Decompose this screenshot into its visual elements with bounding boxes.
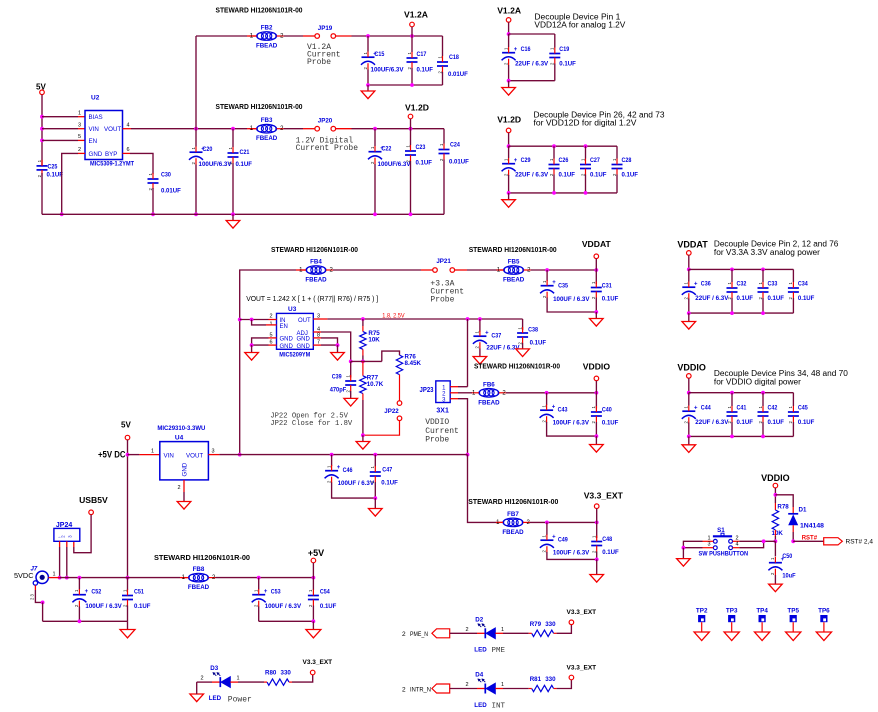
wire C47 upper lead xyxy=(374,455,376,467)
ground TP4 xyxy=(754,632,769,641)
wire JP20 pin1 stub xyxy=(303,128,315,130)
svg-text:VDDIO: VDDIO xyxy=(761,473,790,483)
wire U4 VIN xyxy=(128,454,140,456)
svg-text:FBEAD: FBEAD xyxy=(256,135,278,142)
switch S1 SW PUSHBUTTON xyxy=(699,527,749,558)
net flag V1.2D xyxy=(405,103,429,119)
wire C19 upper lead xyxy=(554,34,556,48)
ground xyxy=(190,694,204,702)
wire U3 GND7 right xyxy=(321,344,338,346)
ground xyxy=(331,353,345,361)
wire EN feed xyxy=(252,320,266,325)
svg-text:C35: C35 xyxy=(558,283,568,290)
wire JP22 return xyxy=(363,420,400,435)
label RST# net xyxy=(802,535,818,541)
svg-text:V3.3_EXT: V3.3_EXT xyxy=(584,490,624,500)
svg-text:R78: R78 xyxy=(777,504,789,511)
wire ADJ to junction xyxy=(321,332,351,361)
capacitor C47 xyxy=(370,466,398,487)
svg-text:D2: D2 xyxy=(475,616,483,623)
svg-text:+: + xyxy=(514,158,518,164)
net flag V1.2A bank xyxy=(497,6,521,23)
ground TP2 xyxy=(694,632,709,641)
wire VDDIO to R78 xyxy=(774,488,776,503)
capacitor C16 xyxy=(502,46,549,68)
svg-text:SW PUSHBUTTON: SW PUSHBUTTON xyxy=(699,550,749,557)
wire 1.8/2.5V rail xyxy=(327,318,522,320)
wire C17 lower lead xyxy=(411,68,413,85)
capacitor C37 xyxy=(473,330,520,351)
svg-text:0.1UF: 0.1UF xyxy=(417,67,434,74)
svg-text:0.1UF: 0.1UF xyxy=(381,480,398,487)
svg-text:C24: C24 xyxy=(450,142,460,149)
svg-text:INTR_N: INTR_N xyxy=(410,686,431,693)
wire 3.3V main rail xyxy=(219,454,467,456)
wire JP21 pin2 stub xyxy=(454,269,467,271)
wire U2 VIN pin stub xyxy=(78,128,85,130)
pin 1 D3 xyxy=(237,676,240,682)
ground TP3 xyxy=(724,632,739,641)
svg-text:1: 1 xyxy=(501,627,504,633)
svg-text:22UF / 6.3V: 22UF / 6.3V xyxy=(515,172,549,179)
wire JP21 to FB5 xyxy=(467,269,499,271)
svg-text:STEWARD HI1206N101R-00: STEWARD HI1206N101R-00 xyxy=(468,497,558,506)
svg-text:C38: C38 xyxy=(528,327,538,334)
pin 2 D2 xyxy=(466,627,469,633)
capacitor C33 xyxy=(758,281,785,303)
capacitor C39 xyxy=(330,374,357,394)
svg-text:C46: C46 xyxy=(343,467,353,474)
capacitor C43 xyxy=(540,404,590,426)
svg-text:+: + xyxy=(694,281,698,287)
junction xyxy=(687,435,691,439)
svg-text:+: + xyxy=(337,465,341,471)
label 1.2V Digital Current Probe xyxy=(296,137,359,154)
wire C42 lower lead xyxy=(762,422,764,436)
net flag V3.3_EXT xyxy=(584,490,624,508)
wire gnd to D3 xyxy=(197,681,212,683)
capacitor C23 xyxy=(405,144,432,167)
svg-text:C43: C43 xyxy=(558,407,568,414)
junction xyxy=(594,268,598,272)
svg-text:Probe: Probe xyxy=(425,436,449,445)
svg-text:1: 1 xyxy=(53,572,56,578)
junction xyxy=(791,539,795,543)
connector J7 5VDC jack xyxy=(14,567,48,586)
wire FB5 pin1 stub xyxy=(499,269,505,271)
svg-text:0.1UF: 0.1UF xyxy=(798,419,815,426)
wire C26 lower lead xyxy=(553,175,555,193)
svg-text:STEWARD HI1206N101R-00: STEWARD HI1206N101R-00 xyxy=(216,102,303,111)
svg-text:C34: C34 xyxy=(798,281,808,288)
capacitor C38 xyxy=(517,327,546,347)
svg-text:D4: D4 xyxy=(475,672,483,679)
svg-text:100UF / 6.3V: 100UF / 6.3V xyxy=(85,603,122,610)
svg-text:GND: GND xyxy=(280,337,294,343)
svg-text:+: + xyxy=(264,589,268,595)
pin 3 U3 xyxy=(317,314,320,320)
junction xyxy=(330,453,334,457)
wire U3 GND5 left xyxy=(252,338,269,345)
wire FB6 to VDDIO xyxy=(506,392,597,394)
svg-text:0.1UF: 0.1UF xyxy=(768,295,785,302)
label STEWARD FB5 xyxy=(469,245,557,254)
svg-text:10.7K: 10.7K xyxy=(367,381,384,388)
wire C28 lower lead xyxy=(616,175,618,193)
label STEWARD FB7 xyxy=(468,497,558,506)
junction xyxy=(373,453,377,457)
ground xyxy=(516,349,530,357)
junction xyxy=(761,268,765,272)
wire C46 upper lead xyxy=(331,455,333,466)
pin 4 U2 xyxy=(127,123,130,129)
wire bank3 top rail xyxy=(689,268,794,270)
svg-text:1: 1 xyxy=(707,535,710,541)
wire C32 upper lead xyxy=(731,269,733,282)
svg-text:BIAS: BIAS xyxy=(89,114,103,121)
wire R77 upper red xyxy=(362,361,364,375)
svg-text:4: 4 xyxy=(127,123,130,129)
svg-text:C39: C39 xyxy=(332,374,342,381)
wire C35 lower lead xyxy=(547,298,596,313)
svg-text:VDDAT: VDDAT xyxy=(582,239,612,249)
wire C35 upper lead xyxy=(546,270,548,281)
svg-text:2: 2 xyxy=(402,631,406,638)
svg-text:100UF / 6.3V: 100UF / 6.3V xyxy=(265,603,302,610)
pin 3 U4 xyxy=(212,449,215,455)
wire 5V input rail xyxy=(60,577,180,579)
pin 2 U2 xyxy=(78,147,81,153)
ground xyxy=(682,313,696,329)
wire U2 VOUT pin stub xyxy=(123,128,132,130)
wire C20 upper lead xyxy=(195,129,197,147)
wire C43 lower lead xyxy=(547,422,597,436)
svg-text:1: 1 xyxy=(237,676,240,682)
capacitor C17 xyxy=(407,51,434,74)
svg-text:+: + xyxy=(552,534,556,540)
svg-text:VDDAT: VDDAT xyxy=(677,239,708,249)
svg-text:2: 2 xyxy=(201,676,204,682)
svg-text:Power: Power xyxy=(228,696,252,705)
capacitor C51 xyxy=(122,589,151,611)
wire U2 GND to rail xyxy=(62,153,78,214)
wire JP19 pin2 stub xyxy=(335,35,351,37)
svg-text:C51: C51 xyxy=(134,589,144,596)
svg-text:VIN: VIN xyxy=(89,126,99,133)
junction xyxy=(545,268,549,272)
junction xyxy=(507,79,511,83)
junction xyxy=(312,576,316,580)
svg-text:100UF/6.3V: 100UF/6.3V xyxy=(371,67,405,74)
junction xyxy=(40,115,44,119)
pin 4 S1 xyxy=(736,542,739,548)
wire C31 upper lead xyxy=(595,270,597,284)
test point TP4 xyxy=(756,608,768,632)
svg-text:C53: C53 xyxy=(271,589,281,596)
pin 1 U3 xyxy=(269,322,272,328)
wire J7 shell stub xyxy=(34,585,36,590)
label R78 value xyxy=(772,530,784,537)
svg-text:MIC5209YM: MIC5209YM xyxy=(279,352,310,359)
junction xyxy=(78,619,82,623)
jumper JP22 xyxy=(384,401,402,421)
connector JP24 xyxy=(54,522,80,541)
port PME_N xyxy=(402,629,450,638)
wire C37 lower lead xyxy=(479,349,481,357)
svg-text:C21: C21 xyxy=(240,149,250,156)
svg-text:JP23: JP23 xyxy=(420,387,434,394)
wire C39 upper lead xyxy=(350,361,352,377)
wire C46 lower lead xyxy=(332,483,376,499)
wire C49 lower lead xyxy=(547,552,597,559)
svg-text:FB8: FB8 xyxy=(193,566,205,573)
junction xyxy=(361,433,365,437)
wire C28 upper lead xyxy=(616,146,618,158)
LED D2 xyxy=(475,616,495,638)
svg-text:R79: R79 xyxy=(530,621,542,628)
svg-text:GND: GND xyxy=(182,462,189,476)
wire ground rail xyxy=(42,213,444,215)
wire C41 lower lead xyxy=(731,422,733,436)
wire R76 to JP22 xyxy=(399,375,401,401)
svg-text:EN: EN xyxy=(89,138,98,145)
svg-text:U3: U3 xyxy=(288,306,297,313)
wire C50 lower lead xyxy=(774,575,776,584)
svg-text:LED: LED xyxy=(209,695,222,702)
junction xyxy=(584,191,588,195)
capacitor C32 xyxy=(727,281,754,303)
junction xyxy=(584,144,588,148)
svg-text:Probe: Probe xyxy=(430,295,454,304)
ground xyxy=(306,621,321,638)
wire VDDIO bank drop xyxy=(688,378,690,393)
pin 6 U2 xyxy=(127,147,130,153)
wire JP21 pin1 stub xyxy=(421,269,433,271)
wire C21 lower lead xyxy=(232,163,234,214)
svg-text:C47: C47 xyxy=(382,467,392,474)
capacitor C29 xyxy=(502,157,549,179)
ground xyxy=(369,498,383,516)
port RST# off-page xyxy=(824,538,874,546)
svg-text:+: + xyxy=(552,404,556,410)
ground xyxy=(682,436,696,452)
junction xyxy=(595,521,599,525)
wire row1 ground rail xyxy=(368,84,443,86)
junction xyxy=(730,435,734,439)
svg-text:D1: D1 xyxy=(799,507,807,514)
junction xyxy=(730,311,734,315)
junction xyxy=(478,317,482,321)
wire C23 upper lead xyxy=(410,129,412,145)
capacitor C22 xyxy=(368,146,411,169)
junction xyxy=(40,139,44,143)
svg-text:GND: GND xyxy=(89,151,103,158)
svg-text:Current Probe: Current Probe xyxy=(296,144,359,153)
svg-text:0.1UF: 0.1UF xyxy=(737,295,754,302)
svg-text:C37: C37 xyxy=(491,333,501,340)
wire JP24 pin2 drop xyxy=(66,547,68,578)
wire V1.2D flag xyxy=(410,119,412,129)
wire U3 left gnd drop xyxy=(251,345,253,352)
svg-text:VDD12A for analog 1.2V: VDD12A for analog 1.2V xyxy=(534,21,626,30)
wire C16 upper lead xyxy=(508,34,510,47)
wire C53 upper lead xyxy=(258,578,260,590)
svg-text:C25: C25 xyxy=(48,163,58,170)
net flag VDDIO mid xyxy=(583,362,611,381)
wire +5V flag xyxy=(312,563,314,578)
wire VDDIO flag xyxy=(595,381,597,393)
op-amp U3 MIC5209YM regulator xyxy=(277,306,314,359)
resistor R77 xyxy=(360,374,384,393)
wire C18 lower lead xyxy=(442,72,444,85)
svg-text:PME_N: PME_N xyxy=(410,631,428,638)
wire FB4 pin1 stub xyxy=(296,269,307,271)
junction xyxy=(250,343,254,347)
junction xyxy=(151,212,155,216)
svg-text:5: 5 xyxy=(78,134,81,140)
svg-text:TP2: TP2 xyxy=(696,608,708,615)
pin 6 U3 xyxy=(269,340,272,346)
svg-text:STEWARD HI1206N101R-00: STEWARD HI1206N101R-00 xyxy=(154,553,250,562)
svg-text:LED: LED xyxy=(474,647,487,654)
wire C38 drop xyxy=(522,319,524,330)
ferrite bead FB5 xyxy=(497,259,531,284)
wire RST# to port xyxy=(793,540,824,542)
svg-text:+5V DC: +5V DC xyxy=(98,449,126,459)
wire bank2 top rail xyxy=(509,145,617,147)
wire C38 lower lead xyxy=(522,343,524,349)
wire C37 upper lead xyxy=(479,319,481,332)
wire C42 upper lead xyxy=(762,393,764,406)
pin 2 D3 xyxy=(201,676,204,682)
wire D2 anode stub xyxy=(495,632,503,634)
svg-text:C50: C50 xyxy=(782,553,792,560)
svg-text:0.1UF: 0.1UF xyxy=(768,419,785,426)
wire C27 upper lead xyxy=(585,146,587,158)
svg-text:C54: C54 xyxy=(320,589,330,596)
wire J7 gnd drop xyxy=(42,602,44,621)
test point TP3 xyxy=(726,608,738,632)
svg-text:C16: C16 xyxy=(521,46,531,53)
svg-text:3: 3 xyxy=(212,449,215,455)
wire C45 lower lead xyxy=(792,422,794,436)
wire JP24 pin1 drop xyxy=(59,547,61,578)
svg-text:FB6: FB6 xyxy=(483,381,495,388)
wire bank1 bottom rail xyxy=(509,80,555,82)
svg-text:VOUT = 1.242 X [ 1 + ( (R77||: VOUT = 1.242 X [ 1 + ( (R77|| R76) / R75… xyxy=(246,294,378,303)
wire JP23 pin1 stub xyxy=(450,386,458,388)
wire R77 lower lead xyxy=(362,400,364,435)
capacitor C24 xyxy=(439,142,470,166)
wire 5V drop to rail xyxy=(127,440,129,578)
wire C34 lower lead xyxy=(792,298,794,313)
wire left gnd rail xyxy=(43,620,128,622)
svg-text:10K: 10K xyxy=(772,530,784,537)
capacitor C45 xyxy=(788,405,815,427)
capacitor C50 xyxy=(768,553,795,580)
diode D1 1N4148 xyxy=(788,507,825,530)
wire R75 lower lead xyxy=(362,356,364,362)
svg-text:0.1UF: 0.1UF xyxy=(737,419,754,426)
svg-text:C20: C20 xyxy=(203,146,213,153)
junction xyxy=(774,493,778,497)
svg-text:0.1UF: 0.1UF xyxy=(320,603,337,610)
svg-text:0.1UF: 0.1UF xyxy=(590,172,607,179)
ferrite bead FB6 xyxy=(472,381,507,406)
pin 1 U2 xyxy=(78,111,81,117)
resistor R79 xyxy=(529,621,557,637)
svg-text:3: 3 xyxy=(78,123,81,129)
svg-text:STEWARD HI1206N101R-00: STEWARD HI1206N101R-00 xyxy=(216,5,303,14)
label V1.2A Current Probe xyxy=(307,43,341,67)
junction xyxy=(507,144,511,148)
junction xyxy=(507,32,511,36)
wire FB5 to VDDAT xyxy=(531,269,597,271)
junction xyxy=(730,268,734,272)
label STEWARD row1 xyxy=(216,5,303,14)
wire C24 lower lead xyxy=(443,160,445,215)
svg-text:for V3.3A 3.3V analog power: for V3.3A 3.3V analog power xyxy=(714,248,820,257)
wire JP24 pin3 stub xyxy=(73,541,75,547)
capacitor C30 xyxy=(148,172,182,195)
svg-text:0.1UF: 0.1UF xyxy=(602,296,619,303)
capacitor C53 xyxy=(252,589,302,611)
wire D2 cathode stub xyxy=(477,632,485,634)
wire D3 to R80 xyxy=(238,681,264,683)
svg-text:V3.3_EXT: V3.3_EXT xyxy=(567,609,597,616)
junction xyxy=(761,391,765,395)
wire JP23 pin2 xyxy=(458,392,472,394)
svg-text:FBEAD: FBEAD xyxy=(478,399,500,406)
label net 1.8 2.5V xyxy=(382,313,405,320)
capacitor C28 xyxy=(612,157,639,179)
capacitor C15 xyxy=(361,51,404,74)
wire U2 VIN xyxy=(42,128,78,130)
wire C25 to ground rail xyxy=(41,173,43,214)
ferrite bead FB4 xyxy=(299,259,334,284)
svg-text:LED: LED xyxy=(474,702,487,709)
svg-text:330: 330 xyxy=(281,670,292,677)
label STEWARD FB4 xyxy=(271,245,358,254)
svg-text:5VDC: 5VDC xyxy=(14,571,33,580)
ground xyxy=(177,502,191,510)
net flag VDDIO bank xyxy=(677,362,706,378)
wire JP23 pin3 stub xyxy=(450,398,458,400)
svg-text:C48: C48 xyxy=(602,536,612,543)
wire U3 GND8 right xyxy=(321,338,338,345)
svg-text:FB4: FB4 xyxy=(310,259,322,266)
svg-text:FB7: FB7 xyxy=(507,511,519,518)
capacitor C46 xyxy=(325,465,375,487)
wire BYP to C30 xyxy=(130,153,153,174)
junction xyxy=(373,212,377,216)
wire bank2 bottom rail xyxy=(509,192,617,194)
pin 2 U4 xyxy=(177,485,180,491)
label STEWARD row2 xyxy=(216,102,303,111)
svg-text:STEWARD HI1206N101R-00: STEWARD HI1206N101R-00 xyxy=(271,245,358,254)
svg-text:GND: GND xyxy=(297,337,311,343)
ground xyxy=(361,85,375,99)
capacitor C21 xyxy=(228,147,253,169)
wire C33 lower lead xyxy=(762,298,764,313)
wire C44 lower lead xyxy=(688,423,690,437)
wire C52 lower lead xyxy=(78,607,80,622)
wire U3 GND6 pin stub xyxy=(269,344,277,346)
wire C36 lower lead xyxy=(688,299,690,314)
junction xyxy=(595,434,599,438)
wire bank3 bottom rail xyxy=(689,312,794,314)
wire C18 upper lead xyxy=(442,36,444,56)
